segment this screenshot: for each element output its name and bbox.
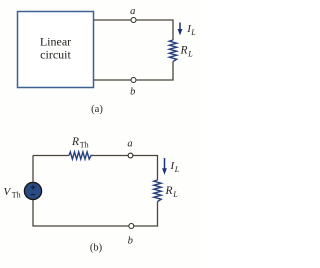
label "Linear circuit" [40, 34, 72, 61]
wire: node b to box (fig a) [94, 79, 131, 81]
wire: node a to top-right corner down to RL (fig b) [133, 156, 157, 181]
svg-text:b: b [128, 236, 133, 247]
svg-text:a: a [130, 6, 135, 17]
wire: node b along bottom to lower-left corner up to VTh (fig b) [33, 200, 129, 226]
wire: RL to bottom-right corner to node b (fig b) [134, 202, 157, 227]
svg-text:R: R [180, 45, 188, 57]
svg-text:circuit: circuit [40, 47, 71, 61]
svg-text:R: R [71, 136, 79, 148]
svg-text:(a): (a) [91, 104, 103, 115]
svg-text:R: R [165, 185, 173, 197]
svg-text:Th: Th [80, 141, 89, 150]
label RTh (fig b) [71, 136, 89, 150]
svg-text:L: L [190, 28, 196, 37]
svg-text:L: L [187, 50, 193, 59]
resistor RTh (fig b) [69, 152, 93, 159]
label RL (fig a) [180, 45, 194, 59]
label RL (fig b) [165, 185, 179, 199]
label VTh (fig b) [4, 186, 21, 200]
svg-text:(b): (b) [90, 242, 103, 253]
wire: box to node a (fig a) [94, 19, 130, 21]
node a (fig a) [131, 18, 136, 23]
current arrow IL (fig b) [162, 158, 167, 175]
resistor RL (fig b) [154, 180, 161, 202]
node b (fig b) [129, 224, 134, 229]
svg-text:Linear: Linear [40, 34, 71, 48]
svg-text:Th: Th [12, 191, 21, 200]
wire: VTh to top-left corner (fig b) [32, 156, 34, 183]
current arrow IL (fig a) [178, 23, 183, 36]
node a (fig b) [128, 153, 133, 158]
wire: RTh to node a (fig b) [93, 155, 128, 157]
resistor RL (fig a) [169, 40, 176, 62]
svg-text:V: V [4, 186, 12, 198]
svg-text:L: L [174, 165, 180, 174]
wire: node a to top-right corner down to RL (fig a) [136, 20, 173, 40]
svg-text:L: L [172, 190, 178, 199]
wire: top-left corner to RTh (fig b) [33, 155, 69, 157]
label IL (fig b) [170, 160, 180, 174]
wire: RL to bottom-right corner to node b (fig a) [137, 62, 173, 81]
linear circuit box [18, 12, 94, 88]
node b (fig a) [131, 78, 136, 83]
svg-text:b: b [130, 87, 135, 98]
voltage source VTh (fig b) [24, 182, 41, 199]
svg-text:a: a [127, 138, 132, 149]
label IL (fig a) [186, 23, 196, 37]
